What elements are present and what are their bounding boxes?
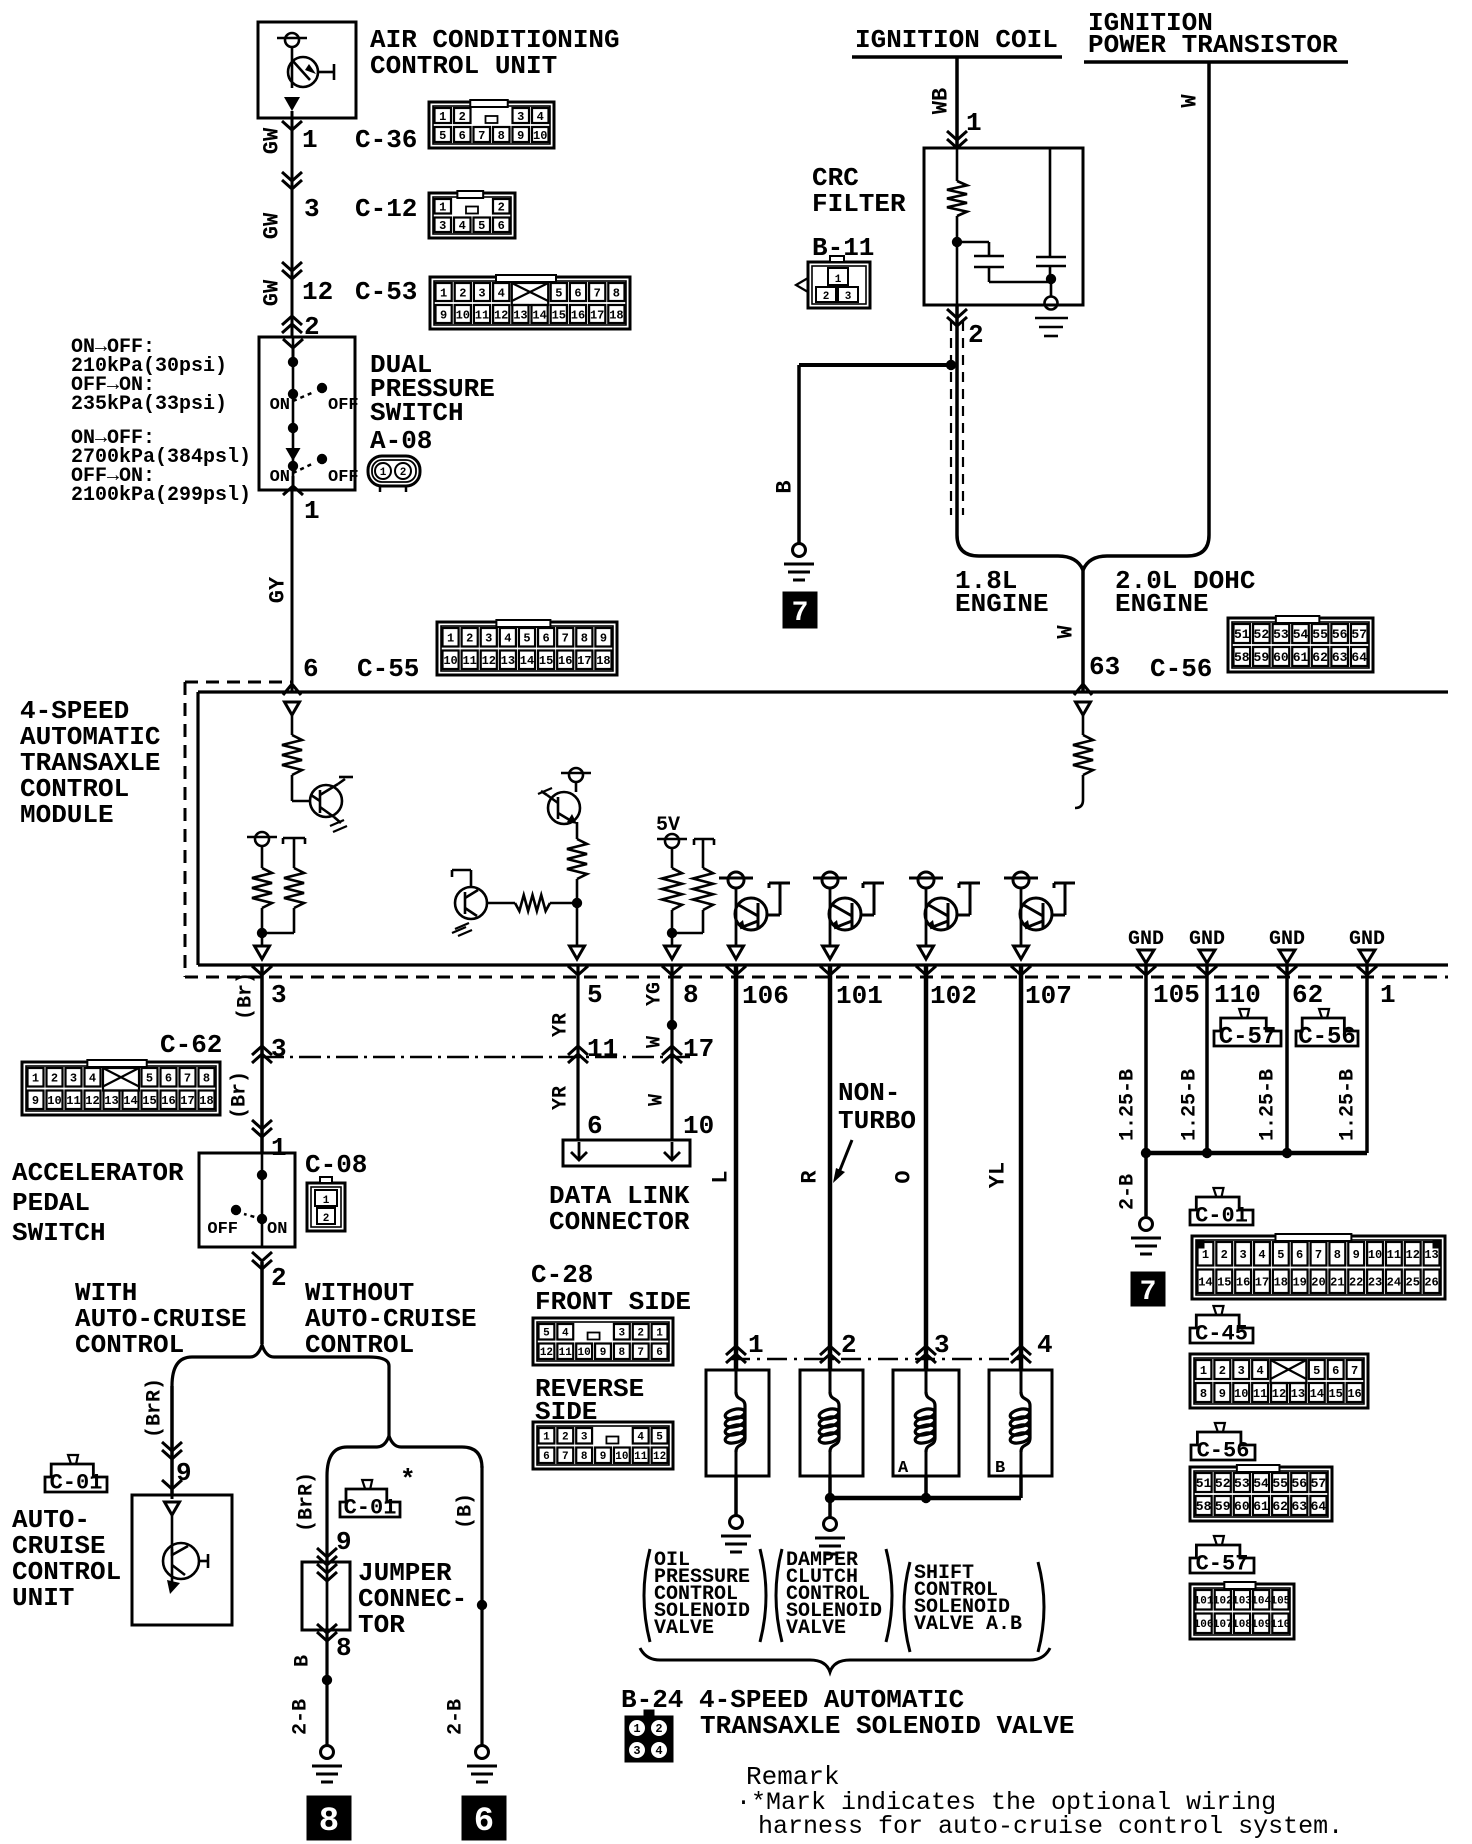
svg-text:GW: GW: [260, 127, 285, 154]
svg-text:FILTER: FILTER: [812, 189, 906, 219]
svg-text:102: 102: [1213, 1596, 1233, 1608]
svg-text:GW: GW: [260, 212, 285, 239]
svg-text:5: 5: [543, 1328, 550, 1340]
svg-text:1: 1: [271, 1133, 287, 1163]
svg-text:2: 2: [271, 1263, 287, 1293]
svg-text:7: 7: [562, 632, 569, 646]
svg-text:2: 2: [637, 1328, 644, 1340]
svg-text:C-57: C-57: [1219, 1024, 1277, 1051]
svg-text:10: 10: [456, 308, 470, 322]
svg-text:2: 2: [466, 632, 473, 646]
svg-text:4: 4: [504, 632, 511, 646]
svg-text:107: 107: [1025, 981, 1072, 1011]
svg-text:4: 4: [537, 110, 544, 124]
svg-text:20: 20: [1311, 1276, 1325, 1290]
svg-text:OFF: OFF: [328, 468, 359, 487]
svg-text:16: 16: [558, 654, 572, 668]
svg-text:15: 15: [1217, 1276, 1231, 1290]
svg-text:MODULE: MODULE: [20, 800, 114, 830]
svg-text:3: 3: [517, 110, 524, 124]
svg-text:58: 58: [1234, 650, 1250, 665]
svg-text:62: 62: [1292, 980, 1323, 1010]
svg-text:8: 8: [203, 1072, 210, 1086]
svg-text:11: 11: [587, 1034, 618, 1064]
svg-text:C-55: C-55: [357, 654, 419, 684]
svg-text:7: 7: [478, 129, 485, 143]
svg-text:GND: GND: [1349, 928, 1385, 951]
svg-text:10: 10: [47, 1094, 61, 1108]
svg-text:4: 4: [498, 286, 505, 300]
svg-text:9: 9: [336, 1527, 352, 1557]
svg-text:21: 21: [1330, 1276, 1344, 1290]
svg-text:C-45: C-45: [1195, 1322, 1248, 1347]
svg-text:2: 2: [841, 1330, 857, 1360]
svg-text:14: 14: [123, 1094, 137, 1108]
svg-text:109: 109: [1251, 1619, 1271, 1631]
svg-text:235kPa(33psi): 235kPa(33psi): [71, 393, 227, 416]
svg-text:R: R: [798, 1170, 823, 1184]
svg-text:12: 12: [653, 1451, 666, 1463]
svg-text:2: 2: [498, 201, 505, 215]
svg-text:51: 51: [1196, 1476, 1212, 1491]
svg-text:TOR: TOR: [358, 1610, 405, 1640]
svg-text:5: 5: [587, 980, 603, 1010]
svg-text:(B): (B): [455, 1493, 478, 1529]
svg-text:3: 3: [845, 291, 852, 303]
svg-text:15: 15: [539, 654, 553, 668]
svg-text:POWER TRANSISTOR: POWER TRANSISTOR: [1088, 30, 1338, 60]
svg-text:1: 1: [302, 125, 318, 155]
svg-text:10: 10: [533, 129, 547, 143]
svg-text:5: 5: [523, 632, 530, 646]
svg-text:56: 56: [1291, 1476, 1307, 1491]
svg-text:C-36: C-36: [355, 125, 417, 155]
svg-text:63: 63: [1089, 652, 1120, 682]
svg-text:8: 8: [581, 1451, 588, 1463]
svg-text:2: 2: [459, 286, 466, 300]
svg-text:2100kPa(299psl): 2100kPa(299psl): [71, 484, 251, 507]
svg-text:C-57: C-57: [1196, 1552, 1249, 1577]
svg-text:6: 6: [165, 1072, 172, 1086]
svg-text:1.25-B: 1.25-B: [1117, 1069, 1140, 1141]
svg-text:(Br): (Br): [229, 1071, 252, 1119]
svg-text:17: 17: [683, 1034, 714, 1064]
svg-text:*: *: [400, 1465, 416, 1495]
svg-text:ON: ON: [267, 1220, 287, 1239]
svg-text:7: 7: [637, 1347, 644, 1359]
svg-text:3: 3: [485, 632, 492, 646]
svg-text:110: 110: [1270, 1619, 1290, 1631]
svg-text:13: 13: [513, 308, 527, 322]
svg-text:2-B: 2-B: [290, 1699, 313, 1735]
svg-text:52: 52: [1254, 627, 1270, 642]
svg-text:10: 10: [1368, 1248, 1382, 1262]
svg-text:harness for auto-cruise contro: harness for auto-cruise control system.: [758, 1812, 1343, 1841]
svg-text:8: 8: [1200, 1387, 1207, 1401]
svg-text:54: 54: [1253, 1476, 1269, 1491]
svg-text:12: 12: [1272, 1387, 1286, 1401]
svg-text:6: 6: [303, 654, 319, 684]
svg-text:2-B: 2-B: [445, 1699, 468, 1735]
svg-text:C-56: C-56: [1298, 1024, 1356, 1051]
svg-text:8: 8: [336, 1633, 352, 1663]
svg-text:6: 6: [459, 129, 466, 143]
svg-text:8: 8: [619, 1347, 626, 1359]
svg-text:10: 10: [683, 1111, 714, 1141]
svg-text:9: 9: [1353, 1248, 1360, 1262]
svg-text:57: 57: [1351, 627, 1367, 642]
svg-text:106: 106: [1194, 1619, 1214, 1631]
svg-text:62: 62: [1312, 650, 1328, 665]
svg-text:59: 59: [1254, 650, 1270, 665]
svg-text:B: B: [995, 1459, 1005, 1478]
svg-text:3: 3: [1238, 1364, 1245, 1378]
svg-text:4: 4: [1257, 1364, 1264, 1378]
svg-text:1: 1: [323, 1195, 330, 1207]
svg-text:3: 3: [934, 1330, 950, 1360]
svg-text:1: 1: [543, 1432, 550, 1444]
svg-text:YR: YR: [550, 1013, 573, 1037]
svg-text:5: 5: [478, 219, 485, 233]
svg-text:1.25-B: 1.25-B: [1257, 1069, 1280, 1141]
svg-text:VALVE: VALVE: [654, 1617, 714, 1640]
svg-text:18: 18: [609, 308, 623, 322]
svg-text:VALVE A.B: VALVE A.B: [914, 1613, 1022, 1636]
svg-text:3: 3: [304, 194, 320, 224]
svg-text:2: 2: [655, 1722, 662, 1736]
svg-text:5: 5: [1313, 1364, 1320, 1378]
svg-text:6: 6: [543, 1451, 550, 1463]
svg-text:4: 4: [89, 1072, 96, 1086]
svg-text:26: 26: [1424, 1276, 1438, 1290]
svg-text:C-56: C-56: [1197, 1439, 1250, 1464]
svg-text:10: 10: [1234, 1387, 1248, 1401]
svg-text:C-01: C-01: [1195, 1204, 1248, 1229]
svg-text:5: 5: [656, 1432, 663, 1444]
svg-text:2: 2: [968, 320, 984, 350]
svg-text:5: 5: [1277, 1248, 1284, 1262]
svg-text:8: 8: [319, 1803, 339, 1841]
svg-text:NON-: NON-: [838, 1078, 900, 1108]
svg-text:6: 6: [656, 1347, 663, 1359]
svg-text:2-B: 2-B: [1117, 1174, 1140, 1210]
svg-text:12: 12: [85, 1094, 99, 1108]
svg-text:8: 8: [581, 632, 588, 646]
svg-text:C-01: C-01: [344, 1496, 397, 1521]
svg-text:13: 13: [1424, 1248, 1438, 1262]
svg-text:7: 7: [792, 598, 809, 629]
svg-text:VALVE: VALVE: [786, 1617, 846, 1640]
svg-text:63: 63: [1291, 1499, 1307, 1514]
svg-text:22: 22: [1349, 1276, 1363, 1290]
svg-text:L: L: [709, 1170, 734, 1183]
svg-text:5V: 5V: [656, 814, 680, 837]
svg-text:2: 2: [51, 1072, 58, 1086]
svg-text:PEDAL: PEDAL: [12, 1188, 90, 1218]
svg-text:C-08: C-08: [305, 1150, 367, 1180]
svg-text:1: 1: [748, 1330, 764, 1360]
svg-text:CONTROL UNIT: CONTROL UNIT: [370, 51, 557, 81]
svg-text:A: A: [898, 1459, 909, 1478]
svg-text:25: 25: [1406, 1276, 1420, 1290]
svg-text:YG: YG: [644, 982, 667, 1006]
svg-text:19: 19: [1292, 1276, 1306, 1290]
svg-text:9: 9: [600, 1347, 607, 1359]
svg-text:102: 102: [930, 981, 977, 1011]
svg-text:62: 62: [1272, 1499, 1288, 1514]
svg-text:24: 24: [1387, 1276, 1401, 1290]
svg-text:16: 16: [1236, 1276, 1250, 1290]
svg-text:23: 23: [1368, 1276, 1382, 1290]
svg-text:105: 105: [1270, 1596, 1290, 1608]
svg-text:18: 18: [596, 654, 610, 668]
svg-text:55: 55: [1272, 1476, 1288, 1491]
svg-text:101: 101: [836, 981, 883, 1011]
svg-text:3: 3: [633, 1744, 640, 1758]
svg-text:GND: GND: [1189, 928, 1225, 951]
svg-text:16: 16: [161, 1094, 175, 1108]
svg-text:64: 64: [1351, 650, 1367, 665]
svg-text:14: 14: [520, 654, 534, 668]
svg-text:1: 1: [1202, 1248, 1209, 1262]
svg-text:TRANSAXLE SOLENOID VALVE: TRANSAXLE SOLENOID VALVE: [700, 1711, 1074, 1741]
svg-text:17: 17: [180, 1094, 194, 1108]
svg-text:3: 3: [1240, 1248, 1247, 1262]
svg-text:9: 9: [32, 1094, 39, 1108]
svg-text:1.25-B: 1.25-B: [1337, 1069, 1360, 1141]
svg-text:15: 15: [552, 308, 566, 322]
svg-text:9: 9: [600, 632, 607, 646]
svg-text:6: 6: [543, 632, 550, 646]
svg-text:1: 1: [656, 1328, 663, 1340]
svg-text:OFF: OFF: [207, 1220, 238, 1239]
svg-text:1: 1: [380, 467, 387, 479]
svg-text:110: 110: [1214, 980, 1261, 1010]
svg-text:60: 60: [1234, 1499, 1250, 1514]
svg-text:13: 13: [1291, 1387, 1305, 1401]
svg-text:103: 103: [1232, 1596, 1252, 1608]
svg-text:11: 11: [462, 654, 476, 668]
svg-text:6: 6: [474, 1803, 494, 1841]
svg-text:18: 18: [1274, 1276, 1288, 1290]
svg-text:C-01: C-01: [50, 1471, 103, 1496]
svg-text:105: 105: [1153, 980, 1200, 1010]
svg-text:107: 107: [1213, 1619, 1233, 1631]
svg-text:1: 1: [966, 108, 982, 138]
svg-text:2: 2: [400, 467, 407, 479]
svg-text:W: W: [1178, 94, 1203, 108]
svg-text:ENGINE: ENGINE: [1115, 589, 1209, 619]
svg-text:12: 12: [540, 1347, 553, 1359]
svg-text:57: 57: [1311, 1476, 1327, 1491]
svg-text:4: 4: [562, 1328, 569, 1340]
svg-text:WB: WB: [929, 88, 954, 114]
svg-text:3: 3: [581, 1432, 588, 1444]
svg-text:2: 2: [823, 291, 830, 303]
svg-text:6: 6: [1296, 1248, 1303, 1262]
svg-text:ON: ON: [270, 396, 290, 415]
svg-text:FRONT SIDE: FRONT SIDE: [535, 1287, 691, 1317]
svg-text:13: 13: [104, 1094, 118, 1108]
svg-text:YR: YR: [550, 1086, 573, 1110]
svg-text:55: 55: [1312, 627, 1328, 642]
svg-text:101: 101: [1194, 1596, 1214, 1608]
svg-text:6: 6: [498, 219, 505, 233]
svg-text:9: 9: [600, 1451, 607, 1463]
svg-text:4: 4: [1037, 1330, 1053, 1360]
svg-text:10: 10: [578, 1347, 591, 1359]
svg-text:56: 56: [1332, 627, 1348, 642]
svg-text:11: 11: [1387, 1248, 1401, 1262]
svg-text:ON: ON: [270, 468, 290, 487]
svg-text:10: 10: [615, 1451, 628, 1463]
svg-text:3: 3: [70, 1072, 77, 1086]
svg-text:14: 14: [532, 308, 546, 322]
svg-text:1: 1: [439, 110, 446, 124]
svg-text:11: 11: [634, 1451, 648, 1463]
svg-text:15: 15: [1328, 1387, 1342, 1401]
svg-text:3: 3: [619, 1328, 626, 1340]
svg-text:O: O: [892, 1170, 917, 1183]
svg-text:12: 12: [482, 654, 496, 668]
svg-text:8: 8: [683, 980, 699, 1010]
svg-text:(BrR): (BrR): [144, 1378, 167, 1438]
svg-text:5: 5: [146, 1072, 153, 1086]
svg-text:63: 63: [1332, 650, 1348, 665]
svg-text:GY: GY: [266, 576, 291, 603]
svg-text:53: 53: [1273, 627, 1289, 642]
svg-text:4: 4: [1258, 1248, 1265, 1262]
svg-text:UNIT: UNIT: [12, 1583, 74, 1613]
svg-text:104: 104: [1251, 1596, 1271, 1608]
svg-text:W: W: [646, 1094, 669, 1106]
svg-text:8: 8: [498, 129, 505, 143]
svg-text:GND: GND: [1128, 928, 1164, 951]
svg-text:108: 108: [1232, 1619, 1252, 1631]
svg-text:1: 1: [32, 1072, 39, 1086]
svg-text:2: 2: [1221, 1248, 1228, 1262]
svg-text:12: 12: [1406, 1248, 1420, 1262]
svg-text:12: 12: [302, 277, 333, 307]
svg-text:YL: YL: [986, 1162, 1011, 1188]
svg-text:1: 1: [304, 496, 320, 526]
svg-text:6: 6: [587, 1111, 603, 1141]
svg-text:2: 2: [1219, 1364, 1226, 1378]
svg-text:2: 2: [323, 1213, 330, 1225]
svg-text:2: 2: [459, 110, 466, 124]
svg-text:15: 15: [142, 1094, 156, 1108]
svg-text:16: 16: [1347, 1387, 1361, 1401]
svg-text:7: 7: [1351, 1364, 1358, 1378]
svg-text:11: 11: [1253, 1387, 1267, 1401]
svg-text:A-08: A-08: [370, 426, 432, 456]
svg-text:11: 11: [66, 1094, 80, 1108]
svg-text:53: 53: [1234, 1476, 1250, 1491]
svg-text:OFF: OFF: [328, 396, 359, 415]
svg-text:C-53: C-53: [355, 277, 417, 307]
svg-text:8: 8: [1334, 1248, 1341, 1262]
svg-text:GND: GND: [1269, 928, 1305, 951]
svg-text:2: 2: [562, 1432, 569, 1444]
svg-text:1: 1: [439, 201, 446, 215]
svg-text:C-12: C-12: [355, 194, 417, 224]
svg-text:W: W: [1054, 625, 1079, 639]
svg-text:C-62: C-62: [160, 1030, 222, 1060]
svg-text:C-28: C-28: [531, 1260, 593, 1290]
svg-text:9: 9: [517, 129, 524, 143]
svg-text:4: 4: [459, 219, 466, 233]
svg-text:17: 17: [1255, 1276, 1269, 1290]
svg-text:CONTROL: CONTROL: [75, 1330, 184, 1360]
svg-text:6: 6: [1332, 1364, 1339, 1378]
svg-text:52: 52: [1215, 1476, 1231, 1491]
svg-text:GW: GW: [260, 279, 285, 306]
svg-text:1: 1: [440, 286, 447, 300]
svg-text:(Br): (Br): [235, 972, 258, 1020]
svg-text:14: 14: [1198, 1276, 1212, 1290]
svg-text:3: 3: [271, 980, 287, 1010]
svg-text:17: 17: [590, 308, 604, 322]
svg-text:ENGINE: ENGINE: [955, 589, 1049, 619]
svg-text:TURBO: TURBO: [838, 1106, 916, 1136]
svg-text:7: 7: [1315, 1248, 1322, 1262]
svg-text:SWITCH: SWITCH: [370, 398, 464, 428]
svg-text:B: B: [773, 480, 798, 493]
svg-text:60: 60: [1273, 650, 1289, 665]
svg-text:W: W: [644, 1036, 667, 1048]
svg-text:4: 4: [655, 1744, 662, 1758]
svg-text:3: 3: [271, 1034, 287, 1064]
svg-text:(BrR): (BrR): [296, 1472, 319, 1532]
svg-text:11: 11: [475, 308, 489, 322]
svg-text:1: 1: [633, 1722, 640, 1736]
svg-text:16: 16: [571, 308, 585, 322]
svg-text:7: 7: [184, 1072, 191, 1086]
svg-text:8: 8: [613, 286, 620, 300]
svg-text:3: 3: [478, 286, 485, 300]
svg-text:SWITCH: SWITCH: [12, 1218, 106, 1248]
svg-text:106: 106: [742, 981, 789, 1011]
svg-text:IGNITION COIL: IGNITION COIL: [855, 25, 1058, 55]
svg-text:14: 14: [1310, 1387, 1324, 1401]
svg-text:C-56: C-56: [1150, 654, 1212, 684]
svg-text:54: 54: [1293, 627, 1309, 642]
svg-text:6: 6: [574, 286, 581, 300]
svg-text:CONNECTOR: CONNECTOR: [549, 1207, 690, 1237]
svg-text:1: 1: [447, 632, 454, 646]
svg-text:1: 1: [1200, 1364, 1207, 1378]
svg-text:59: 59: [1215, 1499, 1231, 1514]
svg-text:7: 7: [562, 1451, 569, 1463]
svg-text:51: 51: [1234, 627, 1250, 642]
svg-text:10: 10: [443, 654, 457, 668]
svg-text:12: 12: [494, 308, 508, 322]
svg-text:9: 9: [440, 308, 447, 322]
svg-text:17: 17: [577, 654, 591, 668]
svg-text:61: 61: [1293, 650, 1309, 665]
svg-text:58: 58: [1196, 1499, 1212, 1514]
svg-text:5: 5: [439, 129, 446, 143]
svg-text:18: 18: [199, 1094, 213, 1108]
svg-text:1.25-B: 1.25-B: [1179, 1069, 1202, 1141]
svg-text:1: 1: [835, 274, 842, 286]
svg-text:7: 7: [1140, 1277, 1157, 1308]
svg-text:4: 4: [637, 1432, 644, 1444]
svg-text:1: 1: [1380, 980, 1396, 1010]
svg-text:3: 3: [439, 219, 446, 233]
svg-text:9: 9: [1219, 1387, 1226, 1401]
svg-text:7: 7: [594, 286, 601, 300]
